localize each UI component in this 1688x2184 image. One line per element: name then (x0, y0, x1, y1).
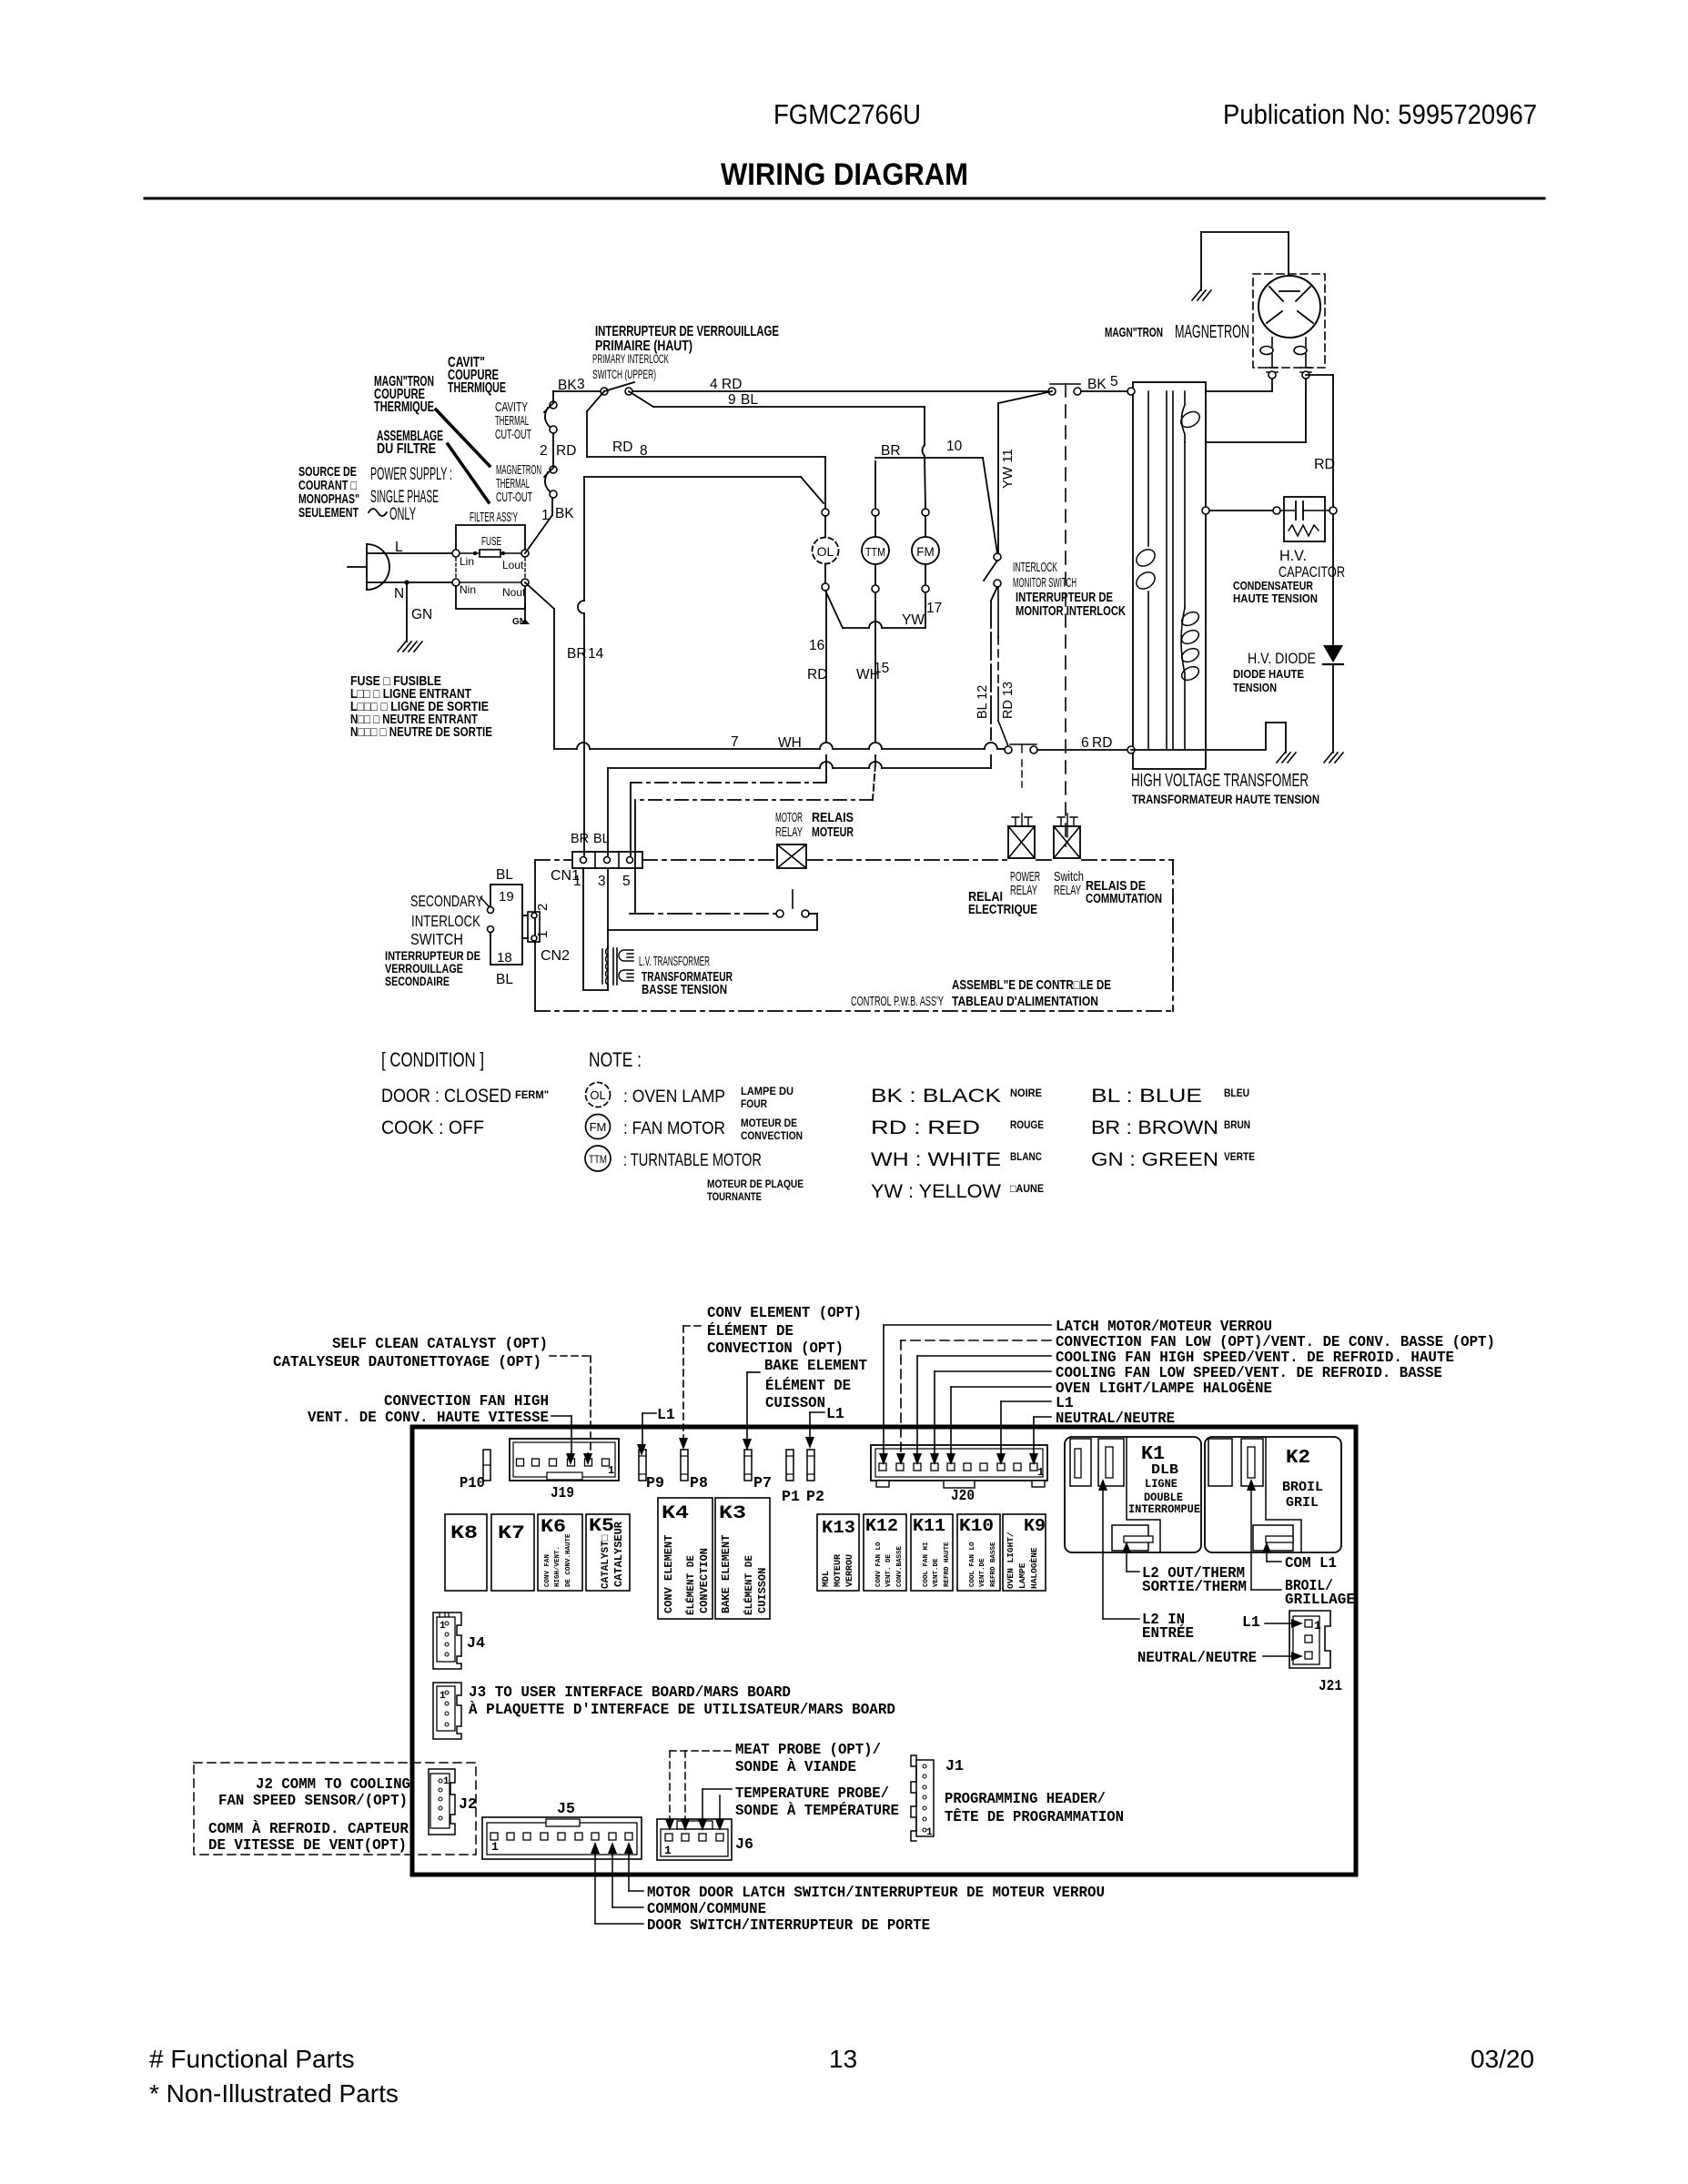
svg-text:8: 8 (640, 443, 648, 459)
wire N (367, 581, 452, 583)
wire YW 11 (997, 403, 999, 553)
svg-text:N□□□ □ NEUTRE DE SORTIE: N□□□ □ NEUTRE DE SORTIE (350, 725, 492, 740)
svg-text:BAKE ELEMENT: BAKE ELEMENT (720, 1535, 733, 1613)
svg-text:LAMPE: LAMPE (1017, 1562, 1027, 1589)
svg-text:FUSE: FUSE (481, 535, 501, 548)
svg-text:BASSE TENSION: BASSE TENSION (642, 983, 727, 997)
svg-text:BL: BL (496, 867, 513, 883)
svg-text:INTERLOCK: INTERLOCK (411, 912, 480, 930)
svg-text:RELAY: RELAY (1010, 884, 1037, 898)
wire 9 BL (629, 391, 653, 407)
wire 9 BL drop to FM (924, 407, 925, 445)
svg-text:TTM: TTM (589, 1153, 607, 1166)
svg-text:Lout: Lout (502, 559, 524, 571)
svg-text:REFRD HAUTE: REFRD HAUTE (944, 1542, 951, 1587)
legend FM (586, 1115, 611, 1139)
svg-text:1: 1 (1037, 1466, 1044, 1479)
connector P8 (681, 1450, 688, 1481)
wire L (367, 552, 456, 554)
J2 dashed option box (194, 1763, 476, 1855)
svg-text:COOL FAN LO: COOL FAN LO (969, 1542, 976, 1587)
legend TTM (585, 1146, 611, 1171)
svg-text:DLB: DLB (1151, 1462, 1178, 1478)
svg-text:FILTER ASS'Y: FILTER ASS'Y (470, 511, 518, 525)
connector J3 (433, 1683, 461, 1739)
svg-text:NOIRE: NOIRE (1010, 1087, 1042, 1099)
svg-text:MOTOR DOOR LATCH SWITCH/INTERR: MOTOR DOOR LATCH SWITCH/INTERRUPTEUR DE … (647, 1884, 1105, 1901)
svg-text:J3 TO USER INTERFACE BOARD/MAR: J3 TO USER INTERFACE BOARD/MARS BOARD (469, 1683, 791, 1701)
svg-text:J6: J6 (735, 1836, 753, 1854)
transformer secondary top coil (1182, 391, 1186, 442)
svg-text:COOL FAN HI: COOL FAN HI (923, 1542, 930, 1587)
svg-text:TOURNANTE: TOURNANTE (707, 1190, 762, 1203)
svg-text:P9: P9 (646, 1475, 664, 1492)
node Lin (452, 550, 460, 557)
svg-text:MONITOR SWITCH: MONITOR SWITCH (1013, 575, 1076, 591)
svg-text:HIGH VOLTAGE TRANSFOMER: HIGH VOLTAGE TRANSFOMER (1131, 771, 1309, 791)
svg-text:WH: WH (778, 735, 802, 751)
node Lout (521, 550, 529, 557)
svg-text:ONLY: ONLY (389, 505, 416, 524)
svg-text:ELECTRIQUE: ELECTRIQUE (968, 903, 1037, 917)
svg-text:POWER SUPPLY :: POWER SUPPLY : (370, 465, 452, 484)
svg-text:VENT. DE CONV. HAUTE VITESSE: VENT. DE CONV. HAUTE VITESSE (308, 1409, 549, 1426)
svg-text:SONDE À TEMPÉRATURE: SONDE À TEMPÉRATURE (735, 1802, 899, 1819)
magnetron antenna wire (1288, 232, 1289, 289)
svg-text:2: 2 (535, 904, 551, 911)
svg-text:CAPACITOR: CAPACITOR (1279, 563, 1345, 581)
svg-text:COMMUTATION: COMMUTATION (1086, 892, 1162, 906)
svg-text:P10: P10 (460, 1475, 485, 1492)
svg-text:H.V.: H.V. (1279, 547, 1307, 564)
svg-text:CUT-OUT: CUT-OUT (496, 490, 532, 505)
power plug (366, 544, 368, 590)
svg-text:TRANSFORMATEUR HAUTE TENSION: TRANSFORMATEUR HAUTE TENSION (1132, 793, 1319, 806)
svg-text:CATALYSEUR DAUTONETTOYAGE (OPT: CATALYSEUR DAUTONETTOYAGE (OPT) (273, 1353, 541, 1370)
svg-text:FM: FM (590, 1120, 607, 1134)
wire to CN1 pin3 (882, 767, 991, 769)
connector CN1 (572, 852, 642, 868)
svg-text:K8: K8 (450, 1523, 478, 1544)
svg-text:3: 3 (598, 874, 606, 889)
svg-text:DIODE HAUTE: DIODE HAUTE (1233, 668, 1304, 681)
connector P9 (639, 1450, 646, 1481)
wire 6 RD (1037, 749, 1129, 751)
svg-text:K11: K11 (913, 1516, 945, 1536)
svg-text:1: 1 (664, 1844, 672, 1857)
svg-text:RD: RD (556, 443, 576, 459)
svg-text:MOTEUR DE PLAQUE: MOTEUR DE PLAQUE (707, 1178, 804, 1190)
svg-text:P7: P7 (753, 1475, 772, 1492)
wire BR 10 (875, 457, 983, 459)
svg-text:RD : RED: RD : RED (871, 1117, 980, 1138)
svg-text:SWITCH: SWITCH (410, 930, 463, 948)
svg-text:L1: L1 (1242, 1613, 1260, 1631)
svg-text:BR: BR (571, 832, 589, 846)
svg-text:J1: J1 (945, 1758, 964, 1775)
svg-text:□AUNE: □AUNE (1010, 1182, 1044, 1195)
svg-text:3: 3 (577, 377, 585, 392)
turntable motor TTM (874, 461, 876, 509)
svg-text:BL: BL (741, 392, 758, 408)
svg-text:CONVECTION: CONVECTION (741, 1129, 803, 1142)
relay K5 (586, 1514, 630, 1591)
svg-text:J2: J2 (459, 1796, 477, 1814)
hv diode D1 (1323, 645, 1343, 662)
svg-text:ÉLÉMENT DE: ÉLÉMENT DE (707, 1322, 793, 1340)
svg-text:VERROU: VERROU (845, 1554, 855, 1587)
svg-text:MOTEUR: MOTEUR (834, 1554, 844, 1587)
svg-text:ÉLÉMENT DE: ÉLÉMENT DE (743, 1555, 755, 1615)
wire YW 17 (825, 591, 843, 628)
relay K10 (957, 1514, 1000, 1591)
connector J5 (482, 1817, 642, 1859)
node GN junction (404, 580, 409, 584)
svg-text:SONDE À VIANDE: SONDE À VIANDE (735, 1758, 856, 1775)
cavity thermal cut-out (550, 426, 557, 433)
wire RD 8 (587, 456, 825, 458)
svg-text:WH : WHITE: WH : WHITE (871, 1149, 1001, 1170)
dashed link Lin-Nin (455, 558, 457, 578)
svg-text:CAVITY: CAVITY (495, 400, 528, 415)
LV transformer T2 (607, 868, 609, 947)
callout broil grillage (1247, 1479, 1256, 1491)
svg-text:# Functional Parts: # Functional Parts (149, 2045, 355, 2073)
svg-text:K6: K6 (541, 1517, 566, 1538)
svg-text:1: 1 (926, 1827, 933, 1838)
svg-text:LAMPE DU: LAMPE DU (741, 1085, 793, 1097)
svg-text:[ CONDITION ]: [ CONDITION ] (381, 1048, 484, 1071)
svg-text:NEUTRAL/NEUTRE: NEUTRAL/NEUTRE (1137, 1649, 1257, 1666)
svg-text:CATALYST□: CATALYST□ (601, 1534, 612, 1589)
svg-text:DE VITESSE DE VENT(OPT): DE VITESSE DE VENT(OPT) (208, 1836, 407, 1854)
wire secondary to left filament (1206, 390, 1272, 392)
svg-text:GN : GREEN: GN : GREEN (1091, 1149, 1218, 1170)
svg-text:RD: RD (1092, 735, 1112, 751)
magnetron thermal cut-out (550, 490, 557, 498)
svg-text:BL: BL (593, 832, 610, 846)
svg-text:10: 10 (946, 439, 963, 454)
svg-text:REFRD BASSE: REFRD BASSE (990, 1542, 997, 1587)
svg-text:K5: K5 (589, 1516, 614, 1537)
callout com l1 (1262, 1542, 1271, 1553)
svg-text:TEMPERATURE PROBE/: TEMPERATURE PROBE/ (735, 1785, 889, 1802)
wire dash link RD16 to CN1 pin5 (631, 782, 826, 784)
svg-text:CONVECTION: CONVECTION (698, 1548, 711, 1613)
svg-text:Lin: Lin (460, 555, 474, 568)
svg-text:CUISSON: CUISSON (765, 1394, 825, 1411)
svg-text:SECONDAIRE: SECONDAIRE (385, 975, 450, 988)
svg-text:CUISSON: CUISSON (756, 1568, 769, 1613)
svg-text:VENT. DE: VENT. DE (885, 1553, 893, 1587)
svg-text:MAGNETRON: MAGNETRON (496, 463, 541, 478)
svg-text:J2 COMM TO COOLING: J2 COMM TO COOLING (256, 1775, 410, 1793)
wire to RD 8 (587, 391, 604, 411)
svg-text:MONOPHAS": MONOPHAS" (298, 492, 359, 507)
ground (magnetron) (1192, 290, 1211, 300)
svg-text:BROIL: BROIL (1282, 1480, 1323, 1495)
svg-text:FM: FM (916, 545, 935, 559)
svg-text:CONVECTION FAN HIGH: CONVECTION FAN HIGH (384, 1392, 549, 1410)
svg-text:Switch: Switch (1054, 870, 1084, 885)
svg-text:BR: BR (567, 646, 587, 662)
svg-text:MOTEUR DE: MOTEUR DE (741, 1117, 797, 1129)
svg-text:THERMIQUE: THERMIQUE (448, 380, 506, 396)
connector J1 (911, 1755, 916, 1841)
svg-text:NEUTRAL/NEUTRE: NEUTRAL/NEUTRE (1056, 1410, 1175, 1427)
svg-text:7: 7 (731, 734, 739, 750)
svg-text:P1: P1 (782, 1489, 800, 1506)
svg-text:BRUN: BRUN (1224, 1118, 1250, 1131)
svg-text:P8: P8 (690, 1475, 708, 1492)
svg-text:RD: RD (1314, 457, 1335, 472)
svg-text:CONVECTION (OPT): CONVECTION (OPT) (707, 1340, 844, 1357)
svg-text:YW: YW (902, 612, 925, 628)
svg-text:16: 16 (809, 638, 824, 653)
svg-text:K10: K10 (959, 1516, 994, 1536)
svg-text:HAUTE TENSION: HAUTE TENSION (1233, 592, 1318, 605)
wire dash link WH15 to relay contact (635, 799, 873, 801)
relay K2 BROIL (1205, 1437, 1341, 1552)
svg-text:CN2: CN2 (541, 948, 570, 964)
node Nin (452, 579, 460, 586)
svg-text:YW : YELLOW: YW : YELLOW (871, 1181, 1001, 1202)
wire RD 16 (825, 591, 827, 743)
magnetron dashed box (1253, 274, 1325, 368)
svg-text:RD: RD (807, 667, 827, 682)
svg-text:1: 1 (535, 931, 551, 938)
node Nout (521, 579, 529, 586)
legend OL (586, 1083, 611, 1107)
svg-text:GRIL: GRIL (1286, 1495, 1319, 1511)
svg-text:CONV FAN LO: CONV FAN LO (875, 1542, 883, 1587)
wire bus 7 WH (554, 748, 577, 750)
svg-text:NOTE :: NOTE : (589, 1048, 642, 1071)
svg-text:DOOR SWITCH/INTERRUPTEUR DE PO: DOOR SWITCH/INTERRUPTEUR DE PORTE (647, 1916, 930, 1934)
wire Lout to thermal cutout (525, 515, 552, 553)
svg-text:5: 5 (1110, 374, 1118, 389)
connector P1 (786, 1450, 793, 1481)
svg-text:J21: J21 (1319, 1678, 1342, 1695)
wire N inside filter (460, 581, 521, 583)
svg-text:FOUR: FOUR (741, 1097, 767, 1110)
svg-text:SEULEMENT: SEULEMENT (298, 506, 359, 521)
svg-text:OVEN LIGHT/LAMPE HALOGÈNE: OVEN LIGHT/LAMPE HALOGÈNE (1056, 1380, 1272, 1397)
svg-text:BK : BLACK: BK : BLACK (871, 1086, 1001, 1107)
svg-text:J20: J20 (951, 1488, 975, 1505)
magnetron tube (1258, 276, 1320, 338)
svg-text:DU FILTRE: DU FILTRE (377, 441, 436, 457)
svg-text:FERM": FERM" (515, 1088, 549, 1101)
svg-text:L1: L1 (657, 1406, 675, 1423)
svg-text:6: 6 (1081, 735, 1089, 751)
svg-text:: TURNTABLE MOTOR: : TURNTABLE MOTOR (623, 1151, 762, 1170)
svg-text:INTERRUPTEUR DE VERROUILLAGE: INTERRUPTEUR DE VERROUILLAGE (595, 324, 779, 339)
svg-text:HALOGÈNE: HALOGÈNE (1029, 1547, 1039, 1589)
connector P7 (744, 1450, 752, 1481)
svg-text:14: 14 (588, 646, 604, 662)
svg-text:PRIMARY INTERLOCK: PRIMARY INTERLOCK (592, 352, 669, 366)
svg-text:BAKE ELEMENT: BAKE ELEMENT (764, 1357, 867, 1374)
magnetron filament loops (1260, 347, 1273, 355)
svg-text:INTERLOCK: INTERLOCK (1013, 560, 1057, 575)
svg-text:BLANC: BLANC (1010, 1150, 1042, 1163)
svg-text:FAN SPEED SENSOR/(OPT): FAN SPEED SENSOR/(OPT) (218, 1792, 408, 1809)
svg-text:COMMON/COMMUNE: COMMON/COMMUNE (647, 1900, 766, 1917)
svg-text:CATALYSEUR: CATALYSEUR (612, 1521, 625, 1587)
svg-text:BK: BK (555, 506, 574, 521)
svg-text:POWER: POWER (1010, 870, 1040, 885)
svg-text:MONITOR INTERLOCK: MONITOR INTERLOCK (1016, 604, 1126, 619)
power relay K coil (1008, 826, 1035, 858)
secondary interlock switch (490, 885, 522, 965)
svg-text:ASSEMBL"E DE CONTR□LE DE: ASSEMBL"E DE CONTR□LE DE (952, 978, 1111, 993)
callout self clean to J19 (550, 1355, 591, 1357)
high voltage transformer T1 (1133, 382, 1206, 769)
svg-text:BL 12: BL 12 (975, 685, 990, 719)
svg-text:THERMIQUE: THERMIQUE (374, 399, 434, 415)
svg-text:LIGNE: LIGNE (1145, 1478, 1178, 1491)
svg-text:* Non-Illustrated Parts: * Non-Illustrated Parts (149, 2079, 399, 2108)
connector P10 (483, 1450, 490, 1481)
connector J2 (429, 1769, 455, 1835)
filter GN stub (524, 604, 526, 619)
svg-text:K2: K2 (1286, 1448, 1310, 1469)
connector J20 (871, 1445, 1047, 1481)
ground (transformer) (1277, 753, 1296, 763)
svg-text:CONV ELEMENT (OPT): CONV ELEMENT (OPT) (707, 1304, 862, 1321)
svg-text:INTERROMPUE: INTERROMPUE (1128, 1503, 1200, 1516)
svg-text:03/20: 03/20 (1471, 2045, 1534, 2073)
wire GN (406, 582, 408, 642)
relay K13 (817, 1514, 859, 1591)
filter assy box (456, 525, 525, 609)
svg-text:L: L (395, 540, 403, 555)
svg-text:Nin: Nin (460, 583, 476, 596)
svg-text:BL : BLUE: BL : BLUE (1091, 1086, 1202, 1107)
magnetron ground wire (1201, 231, 1289, 233)
svg-text:1: 1 (491, 1840, 499, 1854)
callout L2 out/therm (1122, 1542, 1131, 1553)
svg-text:THERMAL: THERMAL (496, 477, 530, 491)
svg-text:DOOR : CLOSED: DOOR : CLOSED (381, 1086, 511, 1107)
ground (diode) (1324, 753, 1343, 763)
svg-text:COM L1: COM L1 (1285, 1554, 1337, 1572)
wire 4 RD (632, 390, 1048, 392)
relay K7 (491, 1514, 534, 1591)
svg-text:À PLAQUETTE D'INTERFACE DE UTI: À PLAQUETTE D'INTERFACE DE UTILISATEUR/M… (469, 1701, 895, 1718)
svg-text:TÊTE DE PROGRAMMATION: TÊTE DE PROGRAMMATION (945, 1808, 1124, 1825)
svg-text:SORTIE/THERM: SORTIE/THERM (1142, 1578, 1247, 1595)
oven lamp OL (822, 509, 829, 516)
node filament right (1302, 371, 1309, 379)
connector J21 (1289, 1611, 1330, 1668)
svg-text:BL: BL (496, 972, 513, 987)
wire RD vertical (1306, 374, 1333, 376)
control pwb boundary (534, 860, 536, 1011)
callout L2 in (1098, 1479, 1107, 1491)
svg-text:15: 15 (874, 661, 889, 676)
svg-text:CONDENSATEUR: CONDENSATEUR (1233, 580, 1313, 592)
svg-text:COURANT □: COURANT □ (298, 479, 357, 493)
interlock monitor switch (1050, 383, 1080, 385)
svg-text:RELAIS: RELAIS (812, 811, 854, 825)
svg-text:13: 13 (829, 2045, 857, 2073)
svg-text:BR : BROWN: BR : BROWN (1091, 1117, 1218, 1138)
svg-text:MOTOR: MOTOR (775, 811, 803, 825)
svg-text:CUT-OUT: CUT-OUT (495, 428, 531, 442)
callout line magnetron thermique (436, 409, 490, 466)
svg-text:OL: OL (590, 1088, 605, 1102)
connector J4 (433, 1613, 461, 1669)
svg-text:COMM À REFROID. CAPTEUR: COMM À REFROID. CAPTEUR (208, 1820, 409, 1837)
svg-text:MAGNETRON: MAGNETRON (1175, 322, 1249, 342)
svg-text:ÉLÉMENT DE: ÉLÉMENT DE (684, 1555, 697, 1615)
svg-text:1: 1 (1314, 1619, 1321, 1633)
svg-text:INTERRUPTEUR DE: INTERRUPTEUR DE (1016, 591, 1113, 605)
svg-text:J5: J5 (557, 1801, 575, 1818)
svg-text:SECONDARY: SECONDARY (410, 892, 483, 910)
svg-text:COOK : OFF: COOK : OFF (381, 1117, 484, 1138)
svg-text:K12: K12 (865, 1516, 898, 1536)
svg-text:THERMAL: THERMAL (495, 414, 529, 429)
svg-text:MAGN"TRON: MAGN"TRON (1105, 326, 1163, 340)
svg-text:Publication No: 5995720967: Publication No: 5995720967 (1223, 98, 1537, 130)
svg-text:VENT.DE: VENT.DE (933, 1558, 940, 1587)
connector J6 (657, 1819, 732, 1860)
svg-text:VENT.DE: VENT.DE (979, 1558, 986, 1587)
svg-text:K7: K7 (498, 1523, 525, 1544)
svg-text:PROGRAMMING HEADER/: PROGRAMMING HEADER/ (945, 1790, 1106, 1807)
svg-text:19: 19 (499, 889, 514, 905)
svg-text:RD 13: RD 13 (1001, 682, 1016, 719)
svg-text:DE CONV.HAUTE: DE CONV.HAUTE (565, 1533, 572, 1587)
svg-text:J4: J4 (467, 1635, 485, 1653)
motor relay contact (630, 913, 776, 915)
relay K8 (445, 1514, 487, 1591)
svg-text:SELF CLEAN CATALYST (OPT): SELF CLEAN CATALYST (OPT) (332, 1335, 548, 1352)
svg-text:RD: RD (612, 440, 632, 455)
svg-text:J19: J19 (551, 1485, 574, 1502)
relay K4 (658, 1498, 713, 1619)
callout conv fan high to J19 (551, 1415, 571, 1417)
hv capacitor C1 (1284, 497, 1325, 541)
wire WH 15 (874, 592, 876, 743)
svg-text:L.V. TRANSFORMER: L.V. TRANSFORMER (639, 954, 710, 969)
svg-text:CONV FAN: CONV FAN (544, 1554, 551, 1587)
wire cord (348, 566, 367, 568)
node 6RD terminal (1127, 746, 1135, 753)
svg-text:CONV.BASSE: CONV.BASSE (896, 1545, 904, 1587)
callouts below board (591, 1842, 600, 1854)
relay K9 (1003, 1514, 1046, 1591)
wire BL 12 (991, 587, 997, 601)
svg-text:SOURCE DE: SOURCE DE (298, 465, 357, 480)
wire secondary tap to right filament (1206, 441, 1306, 443)
wire 2 RD (552, 433, 554, 466)
svg-text:K3: K3 (719, 1503, 746, 1524)
pcb board outline (412, 1427, 1356, 1875)
svg-text:GN: GN (411, 607, 432, 622)
wire capacitor feed (1202, 507, 1209, 514)
svg-text:: OVEN LAMP: : OVEN LAMP (623, 1087, 725, 1107)
svg-text:BK: BK (558, 378, 577, 393)
svg-text:N: N (394, 586, 404, 602)
switch relay K coil (1054, 826, 1080, 858)
svg-text:OL: OL (817, 544, 834, 559)
relay K11 (911, 1514, 953, 1591)
dashed link Lout-Nout (524, 558, 526, 578)
